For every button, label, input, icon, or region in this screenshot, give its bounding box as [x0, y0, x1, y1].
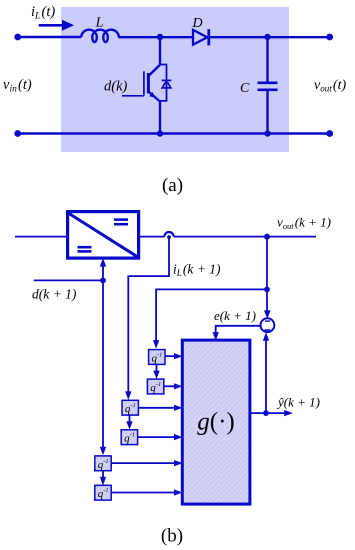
gate bar	[143, 71, 145, 96]
svg-text:e(k + 1): e(k + 1)	[214, 308, 256, 323]
model block g	[182, 340, 250, 504]
delay block q6	[95, 485, 111, 500]
converter shaded region	[61, 7, 289, 152]
svg-text:D: D	[191, 16, 202, 31]
wire q3 to q4	[129, 415, 131, 424]
node capacitor bottom	[264, 130, 270, 136]
wire top rail middle	[118, 36, 193, 38]
delay block q5	[95, 456, 111, 471]
node capacitor top	[264, 34, 270, 40]
delay block q3	[122, 400, 138, 415]
wire q4 out	[138, 436, 177, 438]
wire d down to delays	[102, 280, 104, 449]
converter block U1	[68, 212, 139, 259]
wire q5 to q6	[102, 471, 104, 480]
body bar	[147, 73, 150, 93]
capacitor C	[258, 37, 278, 134]
node input top	[14, 34, 21, 41]
diode D	[193, 29, 209, 45]
emitter diagonal	[148, 92, 160, 102]
wire d up into converter	[102, 264, 104, 280]
wire yhat feedback up	[265, 338, 267, 413]
wire top rail right	[209, 36, 330, 38]
wire iL tap down	[128, 237, 169, 394]
node vout delay branch	[264, 287, 270, 293]
gate lead	[122, 95, 144, 97]
collector lead	[159, 37, 161, 65]
delay block q4	[121, 430, 137, 445]
IGBT switch Q (d(k))	[122, 37, 160, 134]
svg-text:L: L	[95, 16, 104, 31]
wire q5 out	[111, 462, 176, 464]
svg-text:C: C	[240, 81, 250, 96]
svg-text:iL (k + 1): iL (k + 1)	[173, 262, 221, 279]
svg-text:(b): (b)	[161, 526, 183, 547]
wire main bus	[15, 236, 164, 238]
wire g output yhat	[250, 412, 286, 414]
wire top rail left	[18, 36, 81, 38]
collector diagonal	[148, 65, 160, 76]
node d branch	[100, 278, 106, 284]
svg-text:d(k + 1): d(k + 1)	[32, 287, 77, 302]
svg-text:ŷ(k + 1): ŷ(k + 1)	[276, 395, 320, 410]
summer S1	[261, 318, 275, 332]
wire d input	[34, 279, 103, 281]
node output top	[326, 34, 333, 41]
svg-text:(a): (a)	[162, 175, 183, 196]
node switch bottom	[157, 130, 163, 136]
svg-text:vout (t): vout (t)	[314, 78, 346, 94]
delay block q1	[149, 350, 165, 365]
node yhat feedback	[263, 410, 269, 416]
wire summer to g (error)	[216, 326, 261, 335]
node output bottom	[326, 130, 333, 137]
svg-text:g(·): g(·)	[197, 409, 234, 436]
wire q1 out	[165, 355, 177, 357]
wire q1 to q2	[156, 364, 158, 373]
current arrow iL	[39, 20, 74, 31]
wire q2 out	[164, 385, 177, 387]
delay block q2	[147, 379, 163, 394]
node input bottom	[14, 130, 21, 137]
svg-text:vout (k + 1): vout (k + 1)	[277, 215, 331, 232]
wire q6 out	[111, 492, 176, 494]
node vout branch	[264, 234, 270, 240]
wire vout delay branch	[156, 289, 267, 342]
svg-text:iL (t): iL (t)	[31, 4, 55, 22]
svg-text:d(k): d(k)	[104, 79, 128, 95]
wire q3 out	[138, 407, 176, 409]
freewheel diode of IGBT	[160, 65, 171, 101]
emitter arrowhead	[149, 92, 155, 98]
node iL tap (hop with dot)	[164, 232, 173, 239]
emitter lead	[159, 102, 161, 134]
node switch top	[157, 34, 163, 40]
inductor L	[81, 30, 119, 42]
svg-text:vin (t): vin (t)	[3, 77, 32, 95]
wire bottom rail	[18, 132, 330, 134]
wire vout down to summer	[266, 237, 268, 312]
